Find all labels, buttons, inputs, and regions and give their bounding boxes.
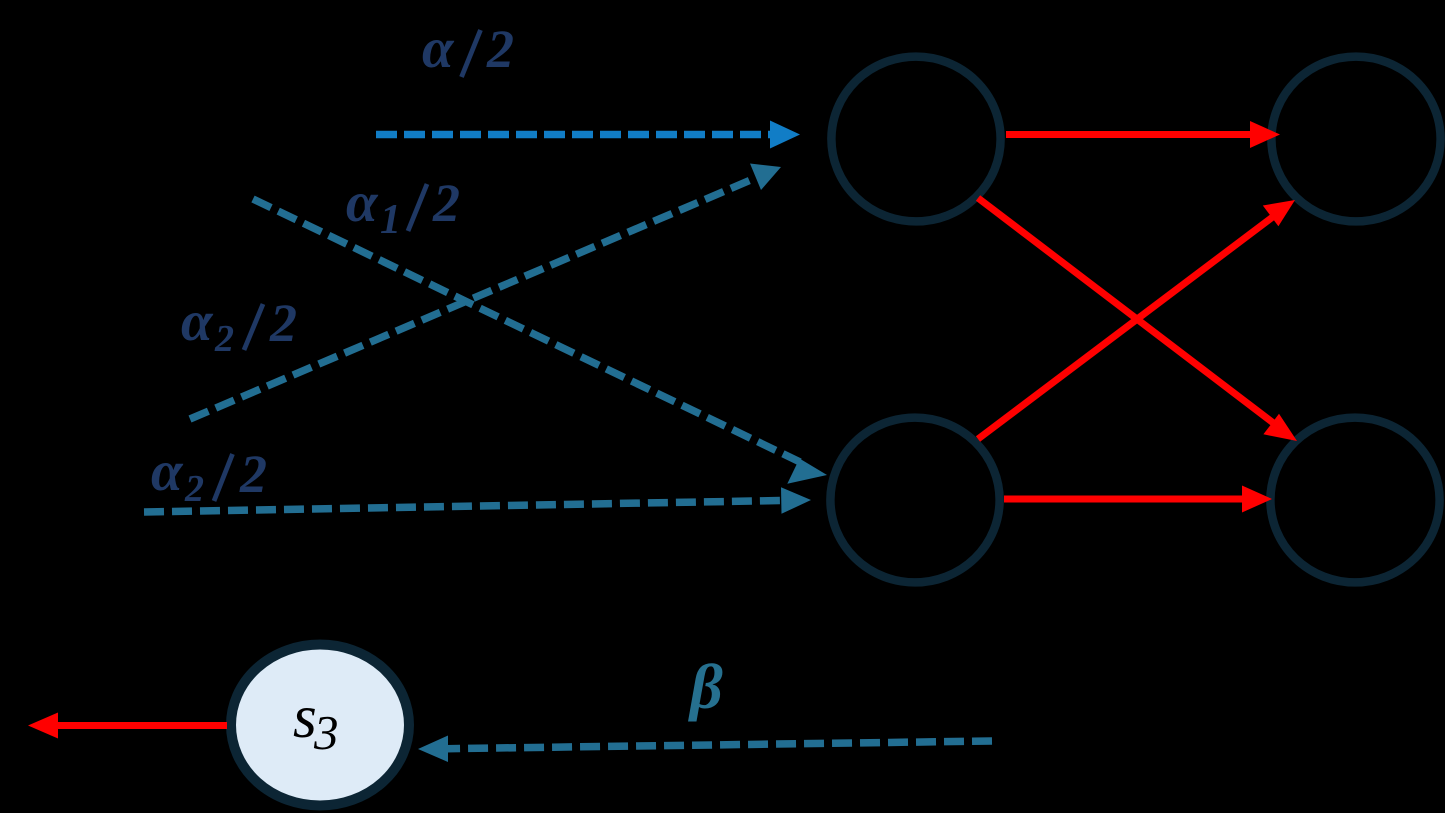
dashed arrow alpha1/2 (teal diagonal, down-right into N2) xyxy=(253,199,827,484)
svg-text:2: 2 xyxy=(486,19,514,79)
svg-text:α: α xyxy=(181,290,214,353)
label alpha2/2 lower xyxy=(151,440,267,510)
svg-text:2: 2 xyxy=(432,173,460,233)
label alpha/2 xyxy=(422,17,514,80)
node N2 bottom-left xyxy=(830,418,999,583)
red edge R2 N1->N4 xyxy=(978,198,1297,441)
svg-text:2: 2 xyxy=(214,318,234,360)
red edge R3 N2->N3 xyxy=(978,200,1295,439)
svg-text:α: α xyxy=(346,171,379,234)
node S3 circle xyxy=(231,645,409,806)
svg-text:2: 2 xyxy=(239,444,267,504)
node N3 top-right xyxy=(1271,57,1440,222)
svg-text:α: α xyxy=(422,17,455,80)
red edge R1 N1->N3 xyxy=(1006,121,1280,148)
label alpha2/2 upper xyxy=(181,290,297,360)
svg-text:3: 3 xyxy=(313,705,339,760)
dashed arrow alpha/2 (bright blue, horizontal) xyxy=(376,121,800,149)
red edge R4 N2->N4 xyxy=(1004,486,1272,513)
node N1 top-left xyxy=(831,57,1000,222)
dashed arrow alpha2/2 upper (teal diagonal, up-right into N1) xyxy=(190,164,781,420)
svg-text:β: β xyxy=(688,651,723,722)
node N4 bottom-right xyxy=(1270,418,1439,583)
svg-text:α: α xyxy=(151,440,184,503)
svg-text:2: 2 xyxy=(184,468,204,510)
label alpha1/2 xyxy=(346,171,460,243)
label s3 xyxy=(293,684,339,760)
red edge R5 out of S3 xyxy=(28,713,227,739)
svg-text:2: 2 xyxy=(269,293,297,353)
svg-text:1: 1 xyxy=(380,197,401,243)
dashed arrow alpha2/2 lower (teal, nearly horizontal into N2) xyxy=(144,487,811,514)
dashed arrow beta (teal, right-to-left into S3) xyxy=(418,736,992,763)
